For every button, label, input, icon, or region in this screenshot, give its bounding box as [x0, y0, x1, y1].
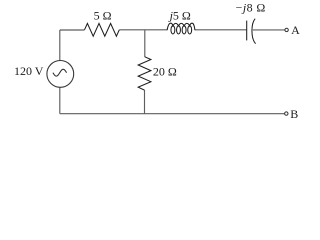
svg-text:j5 Ω: j5 Ω: [168, 8, 191, 22]
svg-text:20 Ω: 20 Ω: [153, 64, 177, 78]
svg-text:A: A: [291, 23, 300, 37]
svg-text:−j8 Ω: −j8 Ω: [236, 1, 266, 15]
svg-text:120 V: 120 V: [14, 64, 44, 78]
svg-text:5 Ω: 5 Ω: [94, 8, 112, 22]
svg-text:B: B: [290, 107, 298, 121]
